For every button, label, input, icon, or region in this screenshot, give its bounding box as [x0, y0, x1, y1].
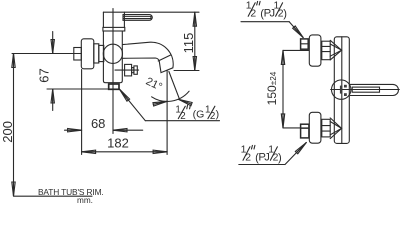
hex nut (front inlet)	[74, 48, 82, 61]
label 1/2"(PJ1/2) top: leader	[241, 22, 304, 39]
lever rod	[350, 84, 398, 95]
body axis centerline	[112, 9, 114, 134]
top hex nut	[301, 39, 309, 49]
dim 115 extension top	[103, 11, 199, 13]
bottom rings	[322, 119, 330, 137]
connector rings (front inlet)	[94, 44, 104, 63]
spout	[123, 42, 174, 72]
dim 115 extension bottom	[174, 70, 199, 72]
top rings	[322, 41, 330, 60]
label 1/2"(PJ1/2) bottom: leader	[239, 141, 308, 164]
hub pivot bar	[340, 86, 342, 94]
svg-text:2: 2	[210, 111, 215, 122]
bottom port G1/2	[109, 84, 119, 89]
dim 67 extension bottom	[47, 88, 109, 90]
angle arc arrow right	[178, 98, 192, 106]
svg-text:68: 68	[91, 116, 105, 131]
dim 67 line lower segment	[52, 89, 54, 111]
svg-text:182: 182	[107, 135, 129, 150]
dim 68 line with outside arrows	[65, 129, 82, 131]
dim 68/182 extension left	[81, 70, 83, 155]
wall plate	[334, 37, 349, 144]
top cone	[330, 40, 341, 60]
svg-text:BATH TUB'S RIM.: BATH TUB'S RIM.	[38, 187, 104, 197]
wall plate inner line	[341, 37, 343, 144]
diverter knob	[115, 64, 139, 76]
dim 67 line upper segment	[52, 32, 54, 54]
top flange	[309, 35, 321, 66]
svg-text:mm.: mm.	[77, 196, 93, 204]
svg-text:(G: (G	[193, 109, 205, 121]
dim 115 line	[194, 12, 196, 70]
hub horizontal centerline	[331, 89, 400, 91]
angle arc arrow left	[153, 100, 167, 106]
cap ring	[103, 27, 125, 31]
svg-text:200: 200	[0, 121, 15, 143]
hub screw top	[344, 85, 347, 88]
hub screw bottom	[344, 93, 347, 96]
svg-text:115: 115	[181, 33, 196, 54]
bottom inlet extension line	[283, 127, 309, 129]
svg-text:): )	[283, 8, 287, 20]
ball joint circle	[103, 44, 122, 63]
flange escutcheon (front inlet)	[81, 39, 94, 69]
svg-text:67: 67	[36, 68, 51, 82]
dim 182 extension right	[166, 71, 168, 155]
dim 200 line	[13, 54, 15, 197]
top inlet extension line	[283, 49, 309, 51]
faucet body column	[103, 31, 122, 83]
dim 150 line	[282, 50, 284, 128]
bottom hex nut	[301, 124, 309, 138]
angle 21 deg: angled reference line	[169, 72, 180, 100]
spout tangent break line	[158, 55, 171, 61]
label 1/2"(PJ1/2) top: text	[246, 0, 287, 20]
lever handle	[123, 15, 152, 21]
svg-text:150±24: 150±24	[265, 71, 279, 105]
svg-text:): )	[278, 152, 282, 164]
bath tub rim line	[14, 195, 93, 197]
svg-text:): )	[216, 109, 220, 121]
angle 21 deg arc	[152, 91, 190, 101]
svg-text:21°: 21°	[144, 76, 164, 94]
lever inner slot	[352, 87, 379, 92]
dim 182 line	[82, 151, 168, 153]
cartridge cap	[103, 12, 124, 27]
label 1/2"(G1/2) text	[175, 105, 219, 122]
bottom flange	[309, 112, 321, 143]
label 1/2"(PJ1/2) bottom: text	[241, 144, 282, 164]
wire: inlet centerline	[12, 53, 81, 55]
svg-text:2: 2	[180, 111, 185, 122]
label 1/2"(G1/2) leader	[118, 88, 219, 121]
bottom cone	[330, 118, 341, 139]
handle hub circle	[332, 80, 351, 99]
